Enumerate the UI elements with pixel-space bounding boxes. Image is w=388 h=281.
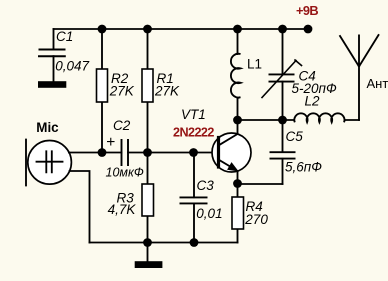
- svg-text:Ант: Ант: [367, 76, 388, 91]
- inductor L1: [231, 54, 241, 99]
- svg-text:0,047: 0,047: [55, 59, 89, 74]
- node dot rail C4: [278, 25, 287, 34]
- resistor R3: [142, 184, 154, 216]
- wire C3 branch: [193, 153, 195, 243]
- node dot rail L1: [233, 25, 242, 34]
- wire C1 to rail: [53, 29, 55, 82]
- wire bottom rail: [90, 242, 238, 244]
- inductor L2: [294, 113, 345, 122]
- transistor VT1: [212, 133, 251, 172]
- wire C5 bottom to emitter node: [238, 183, 283, 185]
- capacitor C3: [180, 197, 208, 203]
- wire R4 branch: [237, 184, 239, 243]
- wire L2 to antenna: [345, 119, 359, 121]
- svg-text:VT1: VT1: [181, 107, 206, 122]
- antenna: [340, 35, 379, 120]
- svg-text:27K: 27K: [109, 84, 135, 99]
- microphone Mic: [28, 141, 72, 185]
- svg-text:C2: C2: [113, 118, 131, 133]
- wire top supply rail: [54, 28, 309, 30]
- node dot C3 top: [189, 148, 198, 157]
- svg-text:+9В: +9В: [296, 3, 318, 18]
- wire L1 branch top: [237, 29, 239, 54]
- node dot C4-C5-L2: [278, 116, 287, 125]
- wire collector node to C4: [238, 119, 295, 121]
- svg-text:2N2222: 2N2222: [173, 126, 214, 140]
- resistor R4: [232, 197, 244, 229]
- capacitor C2: [122, 139, 129, 166]
- resistor R2: [97, 69, 108, 102]
- resistor R1: [142, 69, 153, 102]
- svg-text:10мкФ: 10мкФ: [106, 166, 144, 180]
- svg-text:Mic: Mic: [36, 120, 59, 135]
- node dot collector L1: [233, 116, 242, 125]
- svg-text:L1: L1: [247, 57, 262, 72]
- wire R1 branch: [147, 29, 149, 153]
- node dot mic-C2: [98, 148, 107, 157]
- wire R2 branch: [101, 29, 103, 153]
- wire mic to C2: [69, 152, 122, 154]
- svg-text:27K: 27K: [154, 84, 180, 99]
- node dot emitter: [233, 179, 242, 188]
- wire C2 to base node: [128, 152, 213, 154]
- node dot rail C3: [190, 238, 199, 247]
- capacitor C5: [270, 152, 296, 158]
- svg-text:C3: C3: [197, 178, 215, 193]
- ground below bottom rail: [147, 243, 149, 262]
- svg-text:4,7K: 4,7K: [108, 202, 137, 217]
- node dot rail R2: [98, 25, 107, 34]
- svg-text:270: 270: [244, 212, 268, 227]
- svg-text:L2: L2: [305, 94, 321, 109]
- ground below C1: [38, 81, 66, 88]
- svg-text:C1: C1: [56, 29, 73, 44]
- node dot rail R1: [143, 25, 152, 34]
- svg-text:0,01: 0,01: [196, 206, 222, 221]
- node dot rail R3: [143, 238, 152, 247]
- wire R3 branch: [147, 153, 149, 243]
- svg-text:+: +: [106, 134, 115, 151]
- wire C4 branch: [282, 29, 284, 120]
- node dot C2-R1-R3: [143, 148, 152, 157]
- wire C5 branch: [282, 120, 284, 184]
- svg-text:5,6пФ: 5,6пФ: [285, 160, 322, 175]
- svg-text:C5: C5: [286, 129, 304, 144]
- capacitor C4 variable: [269, 74, 295, 81]
- wire mic bottom to ground rail: [70, 171, 90, 243]
- node dot +9V terminal: [304, 25, 313, 34]
- capacitor C1: [38, 50, 66, 57]
